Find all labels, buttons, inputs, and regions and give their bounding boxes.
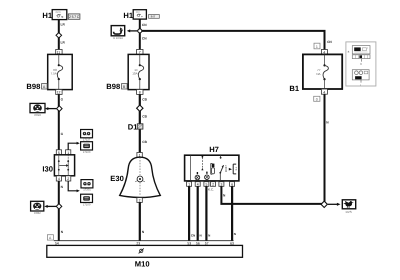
pin 1 of I30 — [66, 150, 71, 155]
pin 1 of E30 — [137, 153, 142, 158]
pin 12 of B98 — [56, 90, 62, 95]
arrow to DVS — [328, 203, 337, 205]
horn E30 bell body — [120, 157, 161, 197]
leader h — [361, 59, 363, 62]
pin 7 of B98 — [137, 50, 143, 55]
arrow to ignition icon — [129, 30, 138, 32]
svg-text:8: 8 — [139, 91, 141, 95]
svg-text:CN: CN — [142, 36, 147, 40]
stub wire from I30 pin1 to thumbnails — [68, 143, 77, 150]
svg-text:B98: B98 — [106, 82, 120, 91]
svg-text:LR: LR — [61, 23, 66, 27]
H1-B code label box — [149, 15, 160, 19]
pin 8 of B98 — [137, 90, 143, 95]
main feed wire to B1 (top horizontal) — [140, 31, 325, 50]
wire H7 pin3 to B1 junction — [221, 186, 321, 204]
svg-text:3: 3 — [221, 183, 223, 187]
svg-text:INT: INT — [151, 15, 156, 19]
svg-text:CN: CN — [327, 40, 332, 44]
svg-text:K.C.: K.C. — [208, 188, 214, 192]
splice circle H1B — [138, 29, 142, 33]
fuse unit B1 box — [303, 54, 342, 89]
svg-text:N: N — [208, 233, 210, 237]
pin 4 of B1 (top) — [321, 50, 327, 55]
relay H7 box — [185, 155, 239, 181]
svg-text:4: 4 — [58, 177, 60, 181]
svg-text:I30: I30 — [42, 164, 53, 173]
inline connector (diamond) — [56, 33, 62, 38]
svg-text:17100: 17100 — [83, 203, 91, 206]
pin 2 of H7 — [211, 182, 216, 187]
ground bus top rail — [54, 240, 234, 242]
arrow to connector icon — [46, 205, 56, 207]
svg-text:1: 1 — [316, 45, 318, 49]
svg-text:4: 4 — [197, 183, 199, 187]
svg-text:1: 1 — [188, 183, 190, 187]
svg-text:90/87: 90/87 — [224, 165, 228, 172]
B98 variant box A — [42, 84, 48, 89]
svg-text:M10: M10 — [135, 259, 150, 268]
pin 3 of H7 — [219, 182, 224, 187]
thumbnail icon box (module) lower2 — [81, 194, 93, 206]
pin 4 of I30 — [56, 176, 61, 181]
svg-text:12: 12 — [57, 91, 61, 95]
wire B1 down to junction — [324, 94, 326, 202]
svg-text:NA: NA — [316, 72, 320, 76]
junction diamond with splice — [57, 106, 63, 112]
wire H7 pin4 to ground — [197, 186, 199, 240]
stub wire from I30 pin2 to thumbnails — [68, 181, 77, 191]
pin 2 of E30 — [137, 198, 142, 203]
wire H1A to B98A pin 11 — [58, 20, 60, 50]
ground plate M10 — [47, 245, 243, 257]
connector icon box C032 — [31, 201, 44, 215]
legend connector strip — [352, 55, 370, 59]
component H1 box B — [133, 10, 146, 19]
svg-text:ILL: ILL — [235, 166, 238, 170]
svg-text:2: 2 — [139, 199, 141, 203]
svg-text:CN: CN — [191, 233, 195, 237]
svg-text:H7: H7 — [209, 145, 219, 154]
pin 2 of I30 — [66, 176, 71, 181]
svg-text:7.5A: 7.5A — [51, 72, 57, 76]
svg-text:CN: CN — [142, 23, 147, 27]
legend fusebox thumb top — [352, 46, 370, 54]
fuse box B98-A — [48, 54, 72, 89]
junction diamond lower-left — [56, 204, 62, 210]
svg-text:2: 2 — [212, 183, 214, 187]
pin 1 of H7 — [187, 182, 192, 187]
leader i — [360, 80, 362, 83]
legend fusebox thumb bottom — [352, 70, 369, 80]
svg-text:CB: CB — [142, 140, 147, 144]
svg-text:LR: LR — [61, 40, 66, 44]
thumbnail icon box (wheel) upper1 — [81, 130, 93, 142]
svg-text:N: N — [200, 233, 202, 237]
svg-text:17100: 17100 — [83, 151, 91, 154]
wire I30 pin4 down to ground bus — [58, 181, 60, 241]
svg-text:B1: B1 — [289, 84, 299, 93]
svg-text:C022: C022 — [34, 113, 41, 117]
pin 11 of B98 — [56, 50, 62, 55]
svg-text:E 10/14: E 10/14 — [113, 37, 123, 40]
svg-text:2: 2 — [67, 177, 69, 181]
thumbnail icon box (module) upper2 — [81, 142, 93, 154]
inset legend outer box — [346, 42, 376, 86]
wire H7 pin6 to ground — [231, 186, 233, 240]
svg-text:DVS: DVS — [346, 210, 352, 214]
svg-text:H1: H1 — [42, 11, 52, 20]
wire B98A pin12 down to I30 pin 5 — [58, 94, 60, 149]
svg-text:5: 5 — [206, 183, 208, 187]
wire B98B pin8 down to E30 — [139, 94, 141, 152]
fuse box B98-B — [128, 54, 149, 89]
pin 4 of B1 (bottom) — [321, 89, 327, 94]
svg-text:25?0: 25?0 — [55, 11, 61, 14]
pin 5 of I30 — [56, 150, 61, 155]
ground ref box A — [47, 235, 53, 241]
wire H7 pin1 to ground — [188, 186, 190, 240]
svg-text:17201: 17201 — [83, 189, 91, 192]
svg-text:H1: H1 — [123, 11, 133, 20]
wire H1B down — [139, 19, 141, 49]
section ref box 1 — [314, 43, 320, 49]
svg-text:E30: E30 — [110, 174, 124, 183]
connector D1 box — [137, 124, 143, 129]
wire E30 down to ground bus — [139, 202, 141, 240]
arrow to connector icon — [47, 108, 56, 110]
svg-text:0: 0 — [316, 97, 318, 101]
switch I30 box — [54, 155, 74, 176]
component H1 box A — [52, 10, 67, 20]
inline connector diamond — [137, 105, 143, 111]
section ref box 0 — [314, 96, 320, 101]
ignition icon box E10 — [111, 26, 125, 41]
pin 5 of H7 — [204, 182, 209, 187]
svg-text:4: 4 — [323, 90, 325, 94]
svg-text:B98: B98 — [26, 82, 40, 91]
svg-text:257C: 257C — [69, 15, 80, 19]
DVS icon box — [342, 200, 355, 214]
svg-text:6: 6 — [231, 183, 233, 187]
svg-text:C032: C032 — [34, 211, 41, 215]
H1-A code label box — [68, 14, 80, 19]
svg-text:N: N — [234, 232, 236, 236]
junction diamond right — [321, 201, 327, 207]
pin 4 of H7 — [195, 182, 200, 187]
thumbnail icon box (wheel) lower1 — [81, 180, 93, 192]
wire H7 pin5 to ground — [205, 186, 207, 240]
B98 variant box B — [122, 84, 128, 89]
pin 6 of H7 — [230, 182, 235, 187]
svg-text:CB: CB — [142, 98, 147, 102]
svg-text:10A: 10A — [132, 72, 137, 76]
svg-text:D1: D1 — [128, 123, 138, 132]
connector icon box C022 — [30, 103, 45, 117]
ground screw symbol — [139, 248, 144, 253]
svg-text:CB: CB — [142, 114, 147, 118]
